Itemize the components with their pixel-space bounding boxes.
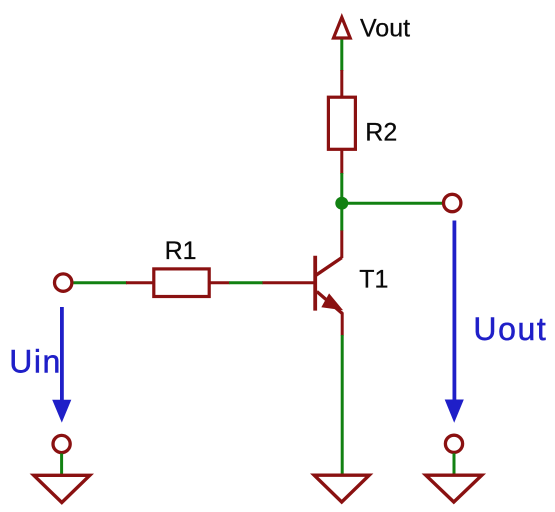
- pin T1 emitter vertical (red): [341, 313, 344, 336]
- svg-text:Uout: Uout: [473, 311, 547, 347]
- input port circle: [55, 274, 72, 291]
- svg-text:R1: R1: [165, 237, 197, 265]
- annotation arrow Uin (blue): [52, 307, 71, 423]
- pin R1 left (red): [126, 281, 154, 284]
- wire circle to ground (green): [453, 453, 456, 474]
- svg-text:T1: T1: [359, 265, 388, 293]
- collector diagonal: [316, 258, 342, 276]
- pin R2 bottom (red): [340, 149, 343, 174]
- power symbol Vout: [334, 17, 351, 38]
- base bar: [313, 256, 317, 311]
- svg-text:Vout: Vout: [360, 14, 410, 42]
- ground (middle): [314, 475, 369, 502]
- wire Vout to R2 (green): [340, 40, 343, 72]
- annotation arrow Uout (blue): [445, 221, 464, 423]
- junction node: [335, 197, 348, 210]
- resistor R2: [328, 97, 355, 149]
- pin T1 base (red): [263, 281, 316, 284]
- output port circle: [444, 194, 461, 211]
- pin R2 top (red): [340, 70, 343, 98]
- ground (left): [34, 475, 90, 502]
- emitter diagonal: [317, 292, 343, 314]
- ground (right): [426, 475, 482, 502]
- svg-text:R2: R2: [365, 119, 397, 147]
- port circle bottom-left: [53, 435, 70, 452]
- port circle bottom-right: [445, 435, 462, 452]
- wire R1 to base (green): [229, 281, 263, 284]
- wire junction to output port (green): [342, 202, 442, 205]
- resistor R1: [154, 269, 209, 297]
- wire R2 to junction (green): [340, 173, 343, 231]
- pin T1 collector vertical (red): [340, 231, 343, 259]
- wire emitter to ground (green): [341, 335, 344, 474]
- pin R1 right (red): [209, 281, 229, 284]
- transistor T1: [315, 256, 342, 314]
- wire input to R1 (green): [74, 281, 128, 284]
- wire circle to ground (green): [60, 454, 63, 475]
- svg-text:Uin: Uin: [9, 344, 62, 380]
- emitter arrowhead: [323, 295, 342, 309]
